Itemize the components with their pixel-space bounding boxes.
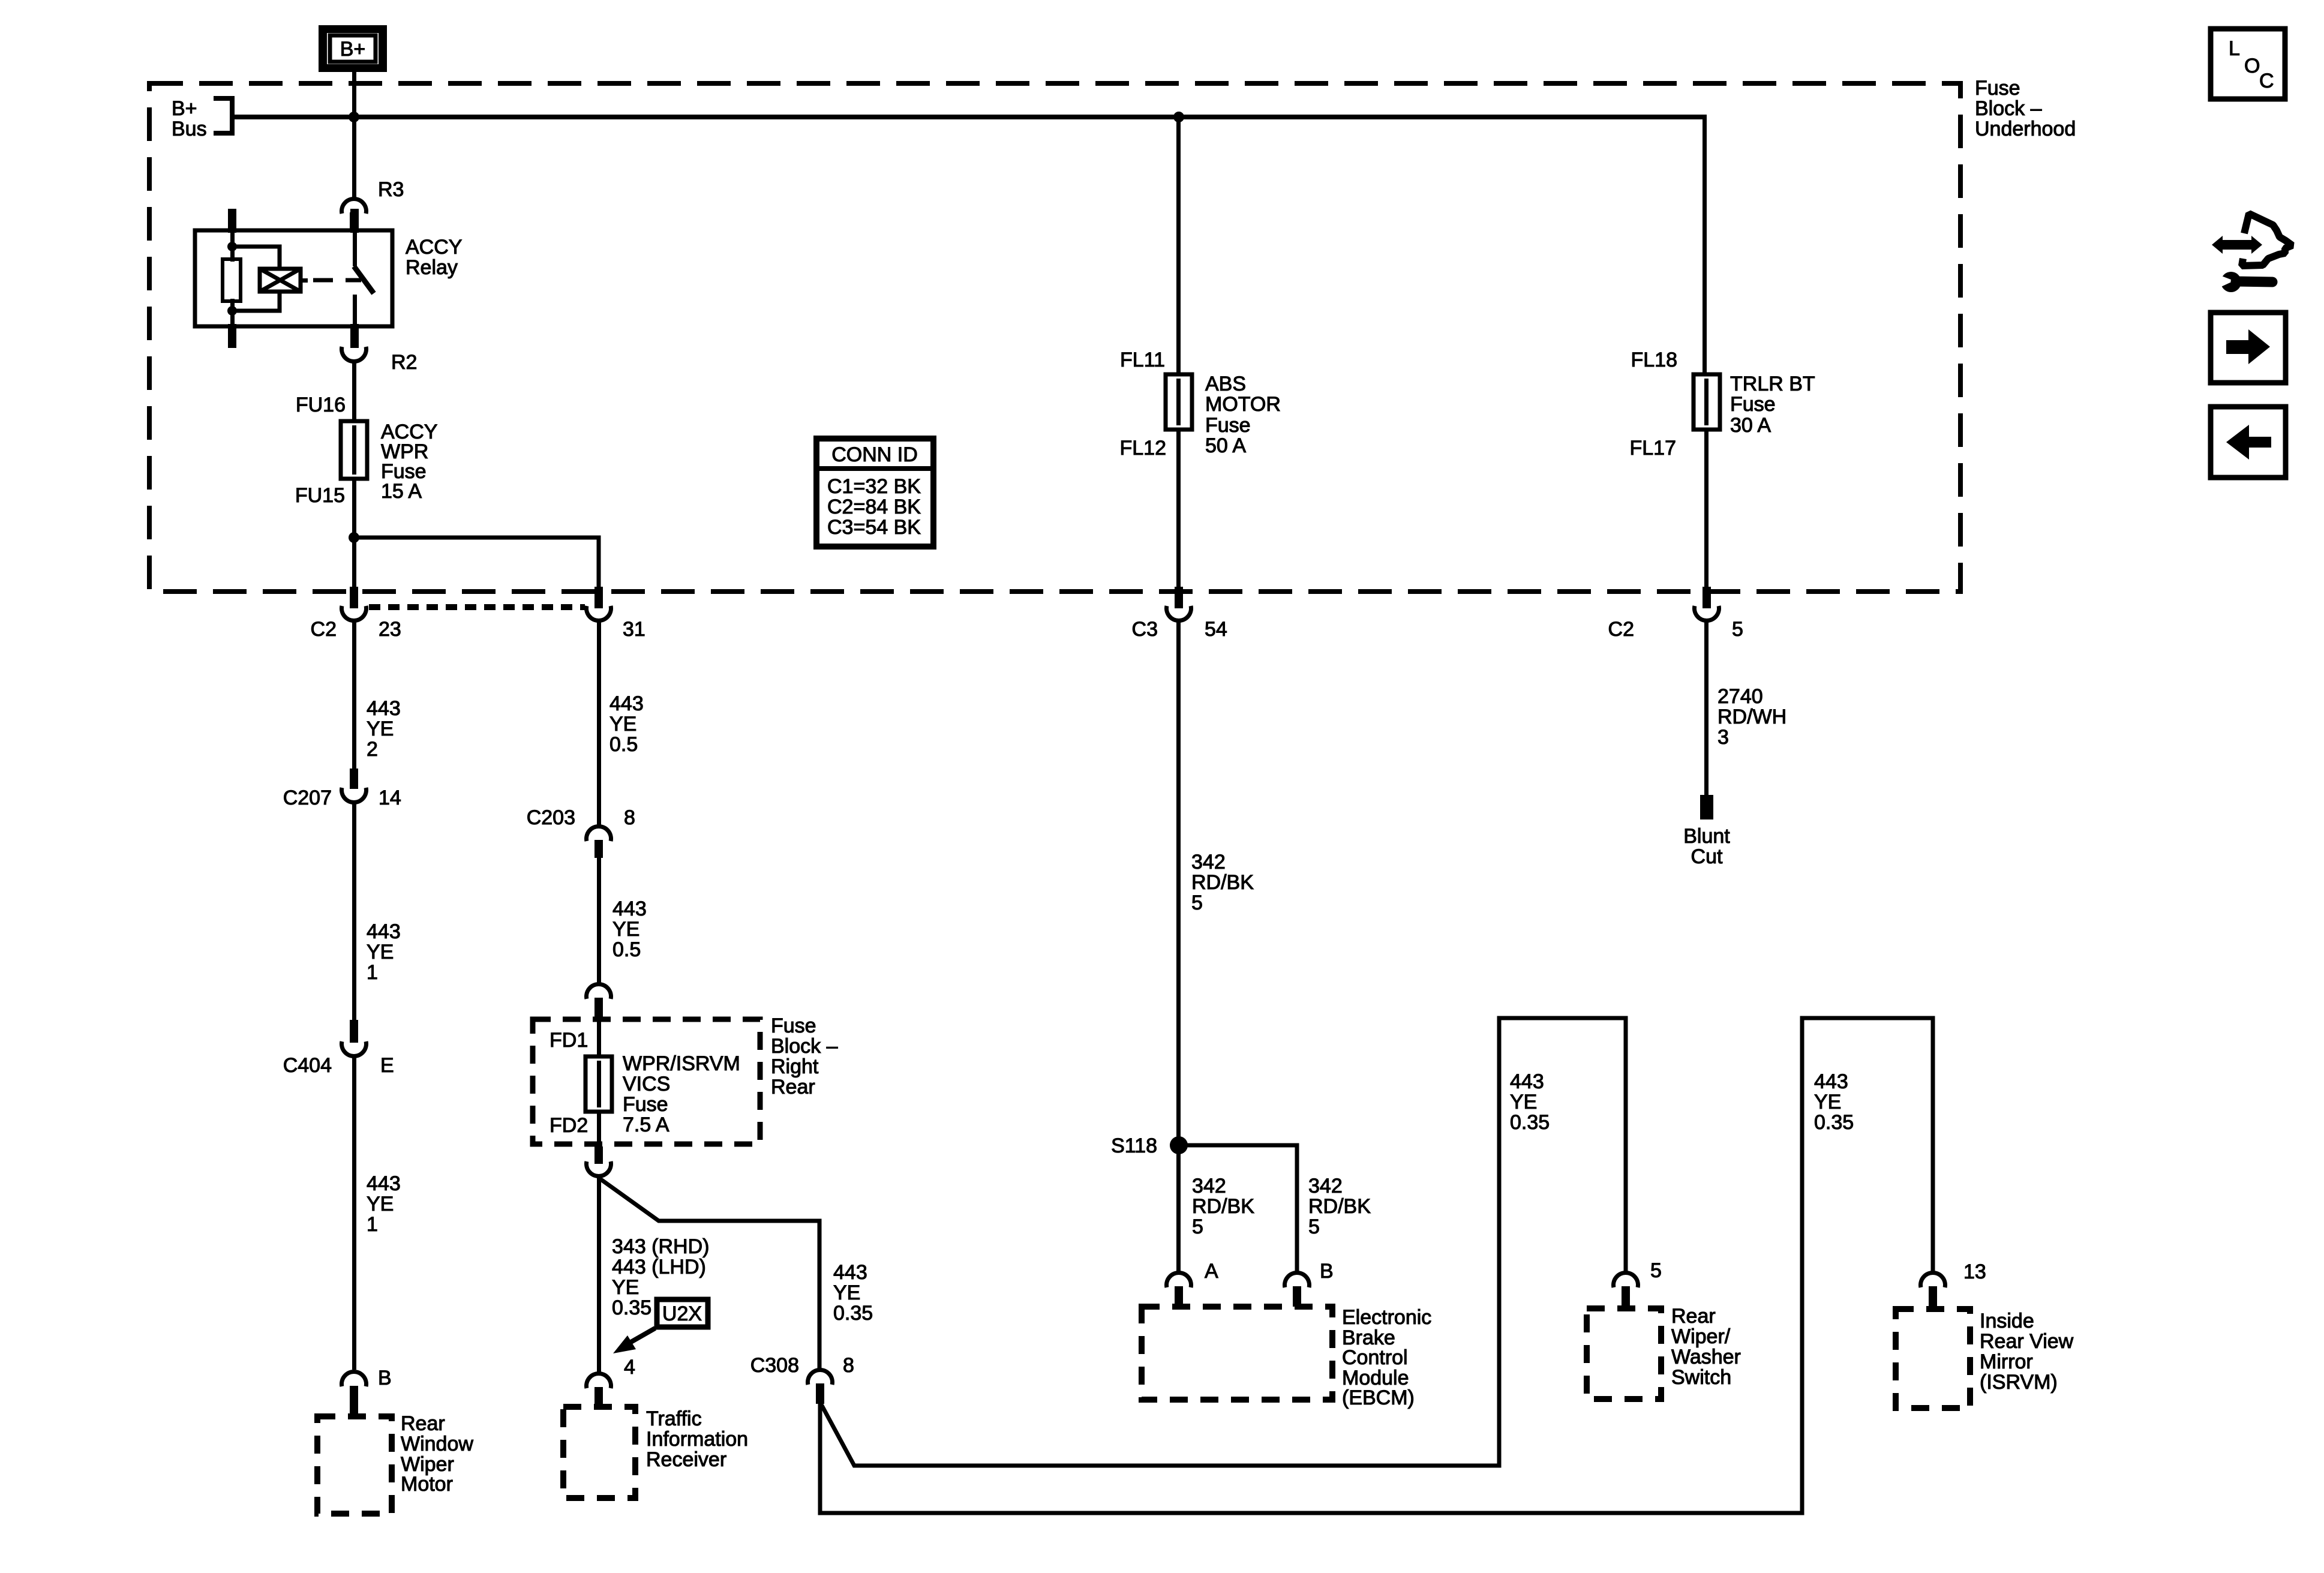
- wire: C308 to rear wiper/washer switch (hook): [821, 1018, 1626, 1466]
- svg-text:Block –: Block –: [771, 1035, 838, 1058]
- svg-text:FL17: FL17: [1630, 437, 1677, 460]
- svg-text:YE: YE: [612, 918, 639, 941]
- svg-text:5: 5: [1732, 618, 1743, 641]
- svg-text:5: 5: [1192, 1215, 1203, 1238]
- Fuse Block - Right Rear label: [771, 1014, 838, 1098]
- wire: connector 31 to C203: [597, 622, 601, 825]
- ACCY WPR Fuse 15 A label: [381, 421, 437, 503]
- TRLR BT Fuse 30 A label: [1730, 373, 1815, 437]
- svg-text:443 (LHD): 443 (LHD): [612, 1256, 706, 1278]
- wire: bus to connector R3: [352, 117, 356, 197]
- svg-text:B+: B+: [340, 38, 366, 61]
- svg-text:C404: C404: [283, 1054, 332, 1077]
- wire label 443 YE 0.5 (lower): [612, 897, 647, 961]
- svg-text:C2=84 BK: C2=84 BK: [827, 496, 921, 518]
- svg-text:ACCY: ACCY: [406, 236, 462, 259]
- relay switch common pin (top): [350, 209, 359, 233]
- U2X callout box: [657, 1299, 708, 1327]
- right arrow legend box: [2211, 313, 2286, 383]
- svg-text:VICS: VICS: [623, 1073, 670, 1095]
- svg-text:Receiver: Receiver: [646, 1448, 726, 1471]
- svg-text:Block –: Block –: [1975, 97, 2042, 120]
- relay ACCY: [195, 209, 392, 348]
- connector FD1: [550, 984, 611, 1052]
- svg-text:O: O: [2244, 55, 2260, 77]
- wire: connector 5 to blunt cut: [1704, 621, 1709, 795]
- svg-text:2: 2: [367, 738, 378, 761]
- svg-text:Right: Right: [771, 1055, 819, 1078]
- Inside Rear View Mirror (ISRVM) label: [1980, 1310, 2074, 1394]
- svg-text:(EBCM): (EBCM): [1342, 1386, 1415, 1409]
- svg-text:Rear: Rear: [771, 1076, 815, 1098]
- svg-text:Rear: Rear: [1671, 1305, 1716, 1328]
- connector FD2: [587, 1146, 611, 1176]
- Traffic Information Receiver label: [646, 1407, 748, 1471]
- wire: bus corner down to FL18: [1703, 117, 1707, 374]
- svg-text:U2X: U2X: [662, 1302, 702, 1325]
- dashed link coil to switch: [313, 278, 361, 283]
- vehicle service icon (car with arrow and wrench): [2212, 214, 2292, 292]
- wire label 443 YE 0.5: [609, 692, 644, 756]
- svg-text:C3: C3: [1132, 618, 1158, 641]
- wire label 443 YE 0.35 (mirror): [1814, 1070, 1854, 1134]
- svg-text:0.5: 0.5: [612, 938, 641, 961]
- svg-text:Fuse: Fuse: [1205, 414, 1251, 437]
- connector C404 pin E: [283, 1020, 394, 1077]
- svg-text:3: 3: [1718, 726, 1729, 749]
- svg-text:Fuse: Fuse: [771, 1014, 816, 1037]
- svg-text:0.35: 0.35: [1510, 1111, 1550, 1134]
- Inside Rear View Mirror box: [1896, 1309, 1970, 1408]
- Electronic Brake Control Module (EBCM) label: [1342, 1306, 1431, 1409]
- svg-text:Fuse: Fuse: [623, 1093, 668, 1116]
- svg-text:Blunt: Blunt: [1683, 825, 1730, 848]
- svg-text:CONN ID: CONN ID: [831, 443, 918, 466]
- svg-text:Fuse: Fuse: [1975, 77, 2020, 100]
- node: resistor bottom: [227, 306, 237, 316]
- ACCY Relay label: [406, 236, 462, 279]
- svg-text:FL11: FL11: [1120, 349, 1165, 371]
- wire: FL17 down to connector 5: [1704, 430, 1709, 587]
- wire label 443 YE 0.35 (switch): [1510, 1070, 1550, 1134]
- svg-text:Information: Information: [646, 1428, 748, 1451]
- svg-text:RD/BK: RD/BK: [1191, 871, 1254, 894]
- relay switch: fixed contact top: [353, 233, 357, 266]
- svg-text:Cut: Cut: [1691, 845, 1723, 868]
- svg-text:B+: B+: [172, 97, 197, 120]
- svg-text:ABS: ABS: [1205, 373, 1246, 395]
- svg-text:Relay: Relay: [406, 256, 458, 279]
- svg-text:Fuse: Fuse: [1730, 393, 1776, 416]
- wire: B+ to bus: [352, 72, 356, 119]
- svg-text:YE: YE: [367, 941, 394, 963]
- connector B (rear window wiper motor): [341, 1367, 391, 1416]
- B+ Bus label: [172, 97, 207, 140]
- svg-text:Motor: Motor: [401, 1473, 453, 1496]
- Fuse Block - Underhood label: [1975, 77, 2076, 140]
- svg-text:1: 1: [367, 1213, 378, 1236]
- wire: coil branch top: [232, 247, 280, 269]
- wire: FD2 branch to C308: [599, 1178, 819, 1369]
- svg-text:C1=32 BK: C1=32 BK: [827, 475, 921, 498]
- svg-text:7.5 A: 7.5 A: [623, 1113, 669, 1136]
- connector C308 pin 8: [750, 1354, 854, 1404]
- wire label 342 RD/BK 5 (pin B): [1308, 1175, 1371, 1238]
- wire: pin to resistor: [230, 233, 235, 262]
- svg-text:443: 443: [609, 692, 644, 715]
- svg-text:C308: C308: [750, 1354, 799, 1377]
- fuse ABS MOTOR (FL11/FL12): [1166, 374, 1192, 430]
- svg-text:Underhood: Underhood: [1975, 118, 2076, 140]
- svg-text:(ISRVM): (ISRVM): [1980, 1371, 2058, 1394]
- wire: FL12 down to connector 54: [1176, 430, 1181, 587]
- ABS MOTOR Fuse 50 A label: [1205, 373, 1281, 457]
- svg-text:0.5: 0.5: [609, 733, 638, 756]
- svg-text:Bus: Bus: [172, 118, 207, 140]
- svg-text:R2: R2: [391, 351, 417, 374]
- svg-text:342: 342: [1308, 1175, 1343, 1197]
- svg-text:B: B: [1320, 1260, 1334, 1283]
- svg-text:R3: R3: [378, 178, 404, 201]
- svg-text:443: 443: [1814, 1070, 1848, 1093]
- svg-text:A: A: [1205, 1260, 1218, 1283]
- relay switch: blade: [354, 266, 374, 293]
- svg-text:15 A: 15 A: [381, 480, 422, 503]
- svg-text:8: 8: [843, 1354, 854, 1377]
- connector C2 pin 23: [311, 587, 401, 641]
- svg-text:YE: YE: [609, 713, 636, 736]
- svg-text:Switch: Switch: [1671, 1366, 1731, 1389]
- svg-text:54: 54: [1205, 618, 1227, 641]
- svg-text:31: 31: [623, 618, 645, 641]
- svg-text:FD2: FD2: [550, 1114, 588, 1137]
- svg-text:30 A: 30 A: [1730, 414, 1771, 437]
- Rear Wiper/Washer Switch label: [1671, 1305, 1741, 1389]
- B+ Bus bracket: [214, 98, 232, 133]
- wire: coil branch bottom: [232, 292, 280, 311]
- svg-text:Mirror: Mirror: [1980, 1350, 2033, 1373]
- wire: C308 to inside rear view mirror (hook): [820, 1018, 1933, 1513]
- relay coil pin (bottom left): [228, 324, 236, 348]
- svg-text:FL12: FL12: [1120, 437, 1167, 460]
- svg-text:MOTOR: MOTOR: [1205, 393, 1281, 416]
- svg-text:8: 8: [624, 806, 635, 829]
- C2 connector link (dotted): [369, 604, 585, 610]
- svg-text:C203: C203: [527, 806, 575, 829]
- wire: B+ bus: [232, 115, 1707, 119]
- svg-text:C207: C207: [283, 786, 332, 809]
- Electronic Brake Control Module box: [1142, 1307, 1332, 1400]
- junction: bus / ABS branch: [1173, 112, 1184, 122]
- wire: FD1 into fuse: [597, 1019, 601, 1056]
- svg-text:FL18: FL18: [1631, 349, 1678, 371]
- wire: branch to connector 31: [354, 538, 599, 587]
- Fuse Block - Right Rear box: [533, 1019, 760, 1144]
- svg-text:RD/WH: RD/WH: [1718, 706, 1786, 728]
- svg-text:TRLR BT: TRLR BT: [1730, 373, 1815, 395]
- svg-text:Traffic: Traffic: [646, 1407, 702, 1430]
- svg-text:Rear View: Rear View: [1980, 1330, 2074, 1353]
- svg-text:5: 5: [1191, 891, 1203, 914]
- connector C2 pin 5: [1608, 587, 1743, 641]
- fuse ACCY WPR (FU16/FU15): [341, 421, 367, 479]
- svg-text:14: 14: [379, 786, 401, 809]
- connector R2: [341, 347, 417, 374]
- svg-text:RD/BK: RD/BK: [1308, 1195, 1371, 1218]
- wire: R2 to fuse FU16: [352, 362, 356, 422]
- connector C3 pin 54: [1132, 587, 1227, 641]
- svg-text:0.35: 0.35: [612, 1296, 651, 1319]
- svg-text:Electronic: Electronic: [1342, 1306, 1431, 1329]
- wire label 342 RD/BK 5 (pin A): [1192, 1175, 1254, 1238]
- svg-text:Inside: Inside: [1980, 1310, 2034, 1332]
- B+ terminal: [319, 25, 387, 72]
- svg-text:FU15: FU15: [295, 484, 345, 507]
- wire: S118 to EBCM pin A: [1176, 1145, 1181, 1272]
- svg-text:C2: C2: [1608, 618, 1634, 641]
- double arrow: [2212, 236, 2262, 254]
- wire: C404 to connector B: [352, 1056, 356, 1370]
- svg-text:1: 1: [367, 961, 378, 984]
- Rear Wiper/Washer Switch box: [1587, 1308, 1661, 1399]
- svg-text:443: 443: [833, 1261, 867, 1284]
- svg-text:342: 342: [1191, 851, 1226, 873]
- connector 5 (rear wiper/washer switch): [1613, 1259, 1661, 1308]
- svg-text:YE: YE: [1510, 1091, 1537, 1113]
- svg-text:13: 13: [1963, 1260, 1986, 1283]
- svg-text:Window: Window: [401, 1433, 473, 1455]
- wire label 2740 RD/WH 3: [1718, 685, 1786, 749]
- CONN ID table: [816, 439, 933, 547]
- fuse WPR/ISRVM VICS (FD1/FD2): [585, 1056, 612, 1112]
- svg-text:S118: S118: [1111, 1134, 1157, 1157]
- blunt cut: [1683, 795, 1730, 868]
- svg-text:4: 4: [624, 1356, 635, 1379]
- svg-text:Rear: Rear: [401, 1412, 445, 1435]
- svg-text:YE: YE: [833, 1281, 860, 1304]
- svg-text:443: 443: [1510, 1070, 1544, 1093]
- wire label 443 YE 1: [367, 920, 401, 984]
- svg-text:2740: 2740: [1718, 685, 1763, 708]
- splice S118: [1111, 1134, 1188, 1157]
- svg-text:Wiper/: Wiper/: [1671, 1325, 1731, 1348]
- resistor R (relay): [223, 259, 241, 301]
- junction: left wire split: [349, 532, 359, 543]
- junction: bus / B+ wire: [349, 112, 359, 122]
- svg-text:WPR/ISRVM: WPR/ISRVM: [623, 1052, 740, 1075]
- svg-text:FD1: FD1: [550, 1029, 588, 1052]
- wire: S118 branch to EBCM pin B: [1179, 1145, 1297, 1272]
- connector 4 (traffic information receiver): [587, 1356, 635, 1407]
- connector C207 pin 14: [283, 769, 401, 809]
- connector C2 pin 31: [587, 587, 645, 641]
- wire label 343 (RHD) 443 (LHD) YE 0.35: [612, 1235, 709, 1319]
- svg-text:B: B: [378, 1367, 392, 1389]
- U2X arrow: [613, 1328, 655, 1353]
- wire: connector 23 to C207: [352, 622, 356, 769]
- wire: bus to FL11: [1176, 117, 1181, 374]
- svg-text:23: 23: [379, 618, 401, 641]
- connector C203 pin 8: [527, 806, 635, 858]
- svg-text:C3=54 BK: C3=54 BK: [827, 516, 921, 539]
- svg-text:5: 5: [1308, 1215, 1320, 1238]
- wire: FU15 down to connector 23: [352, 479, 356, 588]
- relay box: [195, 230, 392, 326]
- Rear Window Wiper Motor label: [401, 1412, 473, 1496]
- svg-text:443: 443: [367, 1172, 401, 1195]
- wire: C207 to C404: [352, 803, 356, 1020]
- wire label 443 YE 1 (lower): [367, 1172, 401, 1236]
- connector R3: [341, 178, 404, 230]
- svg-text:443: 443: [367, 920, 401, 943]
- svg-text:YE: YE: [367, 718, 394, 740]
- svg-text:443: 443: [612, 897, 647, 920]
- svg-text:C: C: [2259, 70, 2274, 92]
- relay coil (box with X): [260, 269, 301, 292]
- svg-text:Washer: Washer: [1671, 1346, 1741, 1368]
- wrench: [2221, 272, 2241, 292]
- svg-text:0.35: 0.35: [1814, 1111, 1854, 1134]
- svg-text:Control: Control: [1342, 1346, 1408, 1369]
- connector B (EBCM): [1285, 1260, 1334, 1307]
- svg-text:343 (RHD): 343 (RHD): [612, 1235, 709, 1258]
- relay coil pin (top left): [228, 209, 236, 233]
- wire label 342 RD/BK 5 (upper): [1191, 851, 1254, 914]
- Traffic Information Receiver box: [563, 1407, 635, 1498]
- wire: C203 to FD1: [597, 857, 601, 983]
- relay switch: fixed contact bottom: [353, 295, 357, 326]
- wire: connector 54 to S118: [1176, 621, 1181, 1145]
- wire: coil stub to dashes: [301, 278, 308, 283]
- svg-text:L: L: [2229, 37, 2240, 60]
- svg-text:RD/BK: RD/BK: [1192, 1195, 1254, 1218]
- svg-text:0.35: 0.35: [833, 1302, 873, 1325]
- svg-text:50 A: 50 A: [1205, 434, 1246, 457]
- connector A (EBCM): [1167, 1260, 1219, 1307]
- svg-text:YE: YE: [1814, 1091, 1841, 1113]
- wire: FD2 to receiver pin 4: [597, 1175, 601, 1372]
- connector 13 (inside rear view mirror): [1921, 1260, 1986, 1309]
- wire: fuse to FD2: [597, 1112, 601, 1146]
- wire label 443 YE 2: [367, 697, 401, 761]
- left arrow legend box: [2211, 407, 2286, 478]
- wire: resistor to bottom node: [230, 299, 235, 326]
- svg-text:E: E: [380, 1054, 394, 1077]
- svg-text:342: 342: [1192, 1175, 1226, 1197]
- Rear Window Wiper Motor box: [317, 1416, 392, 1514]
- node: resistor top: [227, 242, 237, 251]
- svg-text:FU16: FU16: [296, 394, 346, 416]
- relay switch pin (bottom): [350, 324, 359, 348]
- svg-text:5: 5: [1650, 1259, 1662, 1282]
- svg-text:C2: C2: [311, 618, 337, 641]
- wire label 443 YE 0.35 (C308): [833, 1261, 873, 1325]
- WPR/ISRVM VICS Fuse 7.5 A label: [623, 1052, 740, 1136]
- fuse block underhood (dashed border): [149, 83, 1960, 592]
- fuse TRLR BT (FL18/FL17): [1694, 374, 1720, 430]
- LOC legend box: [2211, 29, 2285, 99]
- svg-text:YE: YE: [367, 1193, 394, 1215]
- svg-text:YE: YE: [612, 1276, 639, 1299]
- svg-text:443: 443: [367, 697, 401, 720]
- car body outline: [2242, 214, 2292, 266]
